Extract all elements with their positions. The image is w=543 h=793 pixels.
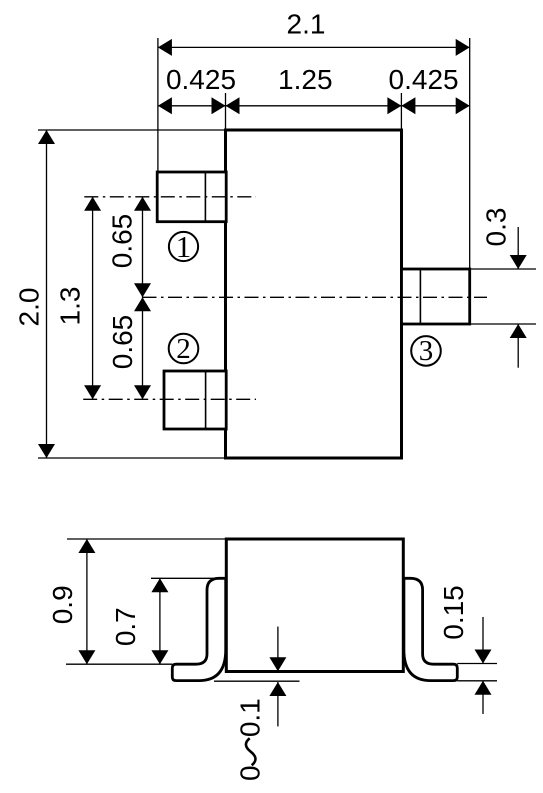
dimension 0.425 (right) bbox=[389, 64, 470, 114]
svg-text:0.15: 0.15 bbox=[438, 585, 469, 640]
centerline pin1 bbox=[84, 196, 256, 198]
svg-text:0.1: 0.1 bbox=[235, 698, 266, 737]
extension lines (side view) bbox=[66, 539, 497, 681]
dimension 0.9 bbox=[47, 539, 96, 664]
pin 1 pad (top view upper-left lead) bbox=[157, 172, 226, 222]
pin number 3 bbox=[411, 335, 441, 367]
centerline pin2 bbox=[83, 398, 256, 400]
dimension 0.7 bbox=[110, 578, 168, 664]
pin number 2 bbox=[169, 333, 199, 365]
svg-text:1: 1 bbox=[176, 229, 192, 264]
svg-text:2.1: 2.1 bbox=[287, 9, 326, 40]
dimension 0.3 (pin3 width) bbox=[481, 208, 527, 368]
pin 2 pad (top view lower-left lead) bbox=[164, 371, 226, 429]
left gull-wing lead (side view) bbox=[172, 578, 226, 680]
svg-text:0: 0 bbox=[235, 765, 266, 781]
dimension 1.3 bbox=[55, 197, 101, 399]
svg-text:0.425: 0.425 bbox=[389, 64, 459, 95]
svg-text:2.0: 2.0 bbox=[14, 288, 45, 327]
dimension 0.65 (lower) bbox=[107, 297, 151, 399]
pin 3 pad (top view right lead) bbox=[402, 269, 470, 324]
svg-text:0.65: 0.65 bbox=[107, 315, 138, 370]
svg-text:0.9: 0.9 bbox=[47, 585, 78, 624]
svg-text:0.425: 0.425 bbox=[166, 64, 236, 95]
body outline (top view) bbox=[226, 130, 402, 458]
svg-text:3: 3 bbox=[419, 335, 434, 367]
dimension 0~0.1 (standoff) bbox=[235, 627, 287, 781]
centerline pin3 / package bbox=[143, 296, 488, 298]
extension lines (top view) bbox=[38, 38, 536, 458]
dimension 0.15 bbox=[438, 585, 492, 714]
dimension 2.0 bbox=[14, 130, 55, 458]
right gull-wing lead (side view) bbox=[403, 578, 457, 680]
body outline (side view) bbox=[226, 539, 403, 672]
dimension 2.1 bbox=[158, 9, 470, 56]
pin number 1 bbox=[169, 229, 198, 264]
svg-text:2: 2 bbox=[176, 333, 191, 365]
dimension 0.65 (upper) bbox=[107, 197, 152, 399]
dimension 0.425 (left) bbox=[158, 64, 236, 114]
dimension 1.25 bbox=[226, 64, 402, 114]
svg-text:1.25: 1.25 bbox=[278, 64, 333, 95]
svg-text:1.3: 1.3 bbox=[55, 287, 86, 326]
svg-text:0.7: 0.7 bbox=[110, 607, 141, 646]
svg-text:0.3: 0.3 bbox=[481, 208, 512, 247]
svg-text:0.65: 0.65 bbox=[107, 214, 138, 269]
